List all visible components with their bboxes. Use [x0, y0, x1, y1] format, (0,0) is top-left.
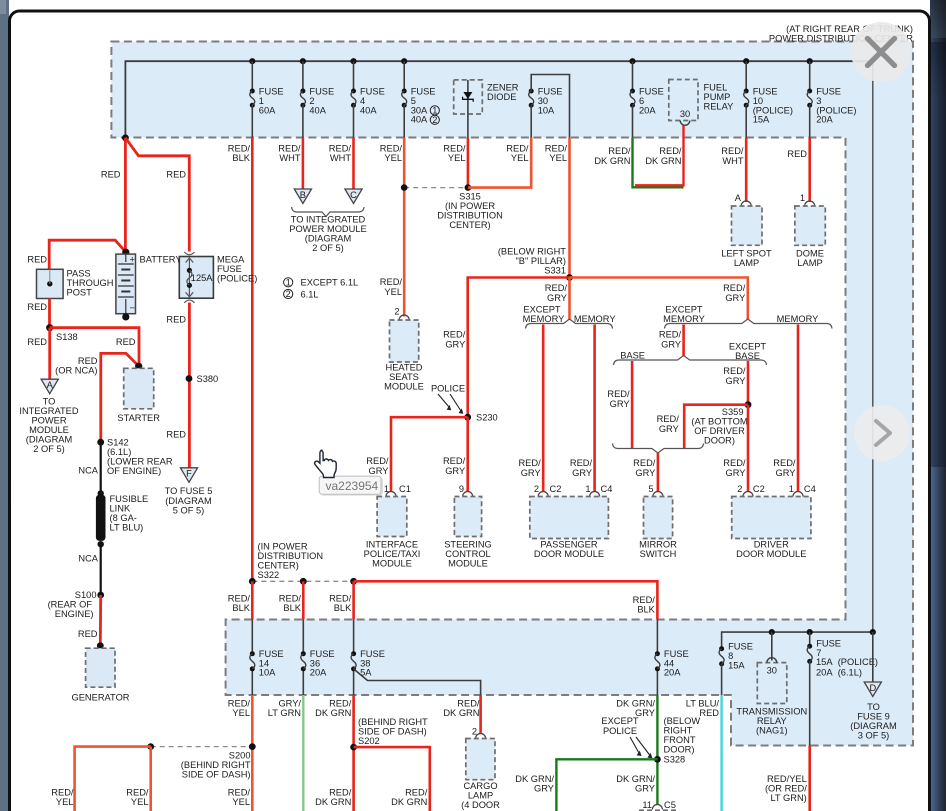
svg-text:RED/: RED/ [723, 458, 746, 468]
svg-text:POWER MODULE: POWER MODULE [289, 224, 366, 234]
pin 1 C4 passenger door module [585, 484, 612, 497]
wire NCA fusible link to S100 [100, 544, 102, 595]
wire RED/BLK S322 drop to fuse14 [251, 581, 254, 619]
label NCA [78, 554, 98, 564]
svg-text:MODULE: MODULE [29, 425, 69, 435]
svg-text:RED/: RED/ [126, 788, 149, 798]
svg-text:RED/: RED/ [51, 788, 74, 798]
svg-text:15A (POLICE): 15A (POLICE) [816, 657, 878, 667]
svg-text:RED: RED [78, 356, 98, 366]
label RED/YEL [545, 144, 568, 164]
svg-text:C1: C1 [399, 484, 411, 494]
svg-text:10A: 10A [538, 105, 555, 115]
svg-text:RED/: RED/ [721, 146, 744, 156]
svg-text:RED/: RED/ [608, 146, 631, 156]
svg-text:POST: POST [67, 288, 93, 298]
dome lamp module [795, 206, 826, 268]
svg-text:RED: RED [101, 170, 121, 180]
label TO INTEGRATED POWER MODULE (DIAGRAM 2 OF 5) [289, 215, 366, 254]
svg-text:YEL: YEL [448, 153, 466, 163]
svg-text:SWITCH: SWITCH [640, 549, 677, 559]
svg-text:STEERING: STEERING [444, 540, 492, 550]
splice S138 [46, 324, 78, 342]
wire RED mega fuse to S380 to connector F [188, 303, 191, 468]
label BATTERY [140, 255, 182, 265]
svg-text:S202: S202 [358, 736, 380, 746]
wire RED/BLK S322 drop to fuse38 [352, 581, 355, 619]
label RED [101, 170, 121, 180]
svg-text:RIGHT: RIGHT [664, 726, 693, 736]
pin 2 cargo lamp [472, 727, 486, 739]
svg-text:BLK: BLK [232, 153, 250, 163]
svg-text:RED/: RED/ [380, 144, 403, 154]
pin 9 steering control module [459, 484, 473, 497]
svg-text:RED: RED [27, 337, 47, 347]
svg-text:(BEHIND RIGHT: (BEHIND RIGHT [358, 717, 428, 727]
label RED [166, 430, 186, 440]
brace except-memory / memory (right) [665, 319, 833, 329]
wire RED/GRY S331 right to memory brace [570, 278, 748, 321]
svg-text:RED/: RED/ [457, 699, 480, 709]
splice S322 dashed link [249, 578, 357, 585]
svg-text:MODULE: MODULE [372, 559, 412, 569]
label RED/YEL [228, 788, 251, 808]
wire fuse7 feed [809, 632, 811, 646]
svg-text:5: 5 [648, 484, 653, 494]
svg-text:B: B [300, 190, 306, 200]
label RED/YEL [51, 788, 74, 808]
svg-text:(NAG1): (NAG1) [756, 726, 788, 736]
wire RED/YEL fuse7 output below box [808, 746, 811, 811]
label RED/YEL [506, 144, 529, 164]
svg-text:MIRROR: MIRROR [639, 540, 677, 550]
fuse F14 10A [250, 649, 284, 678]
svg-text:RED/: RED/ [443, 456, 466, 466]
svg-text:YEL: YEL [384, 287, 402, 297]
svg-text:MEMORY: MEMORY [523, 314, 565, 324]
passenger door module [530, 497, 609, 560]
label DK GRN/ GRY [616, 699, 655, 719]
connector triangle F [180, 468, 197, 483]
svg-text:RED: RED [27, 254, 47, 264]
svg-text:GRY: GRY [635, 784, 655, 794]
svg-text:LAMP: LAMP [468, 791, 493, 801]
svg-text:OF DRIVER: OF DRIVER [694, 426, 745, 436]
svg-text:2: 2 [432, 115, 437, 125]
svg-text:(AT BOTTOM: (AT BOTTOM [691, 417, 747, 427]
label RED/GRY [518, 458, 541, 478]
wire fuse38 jog to cargo lamp [354, 669, 481, 695]
svg-text:EXCEPT: EXCEPT [523, 305, 561, 315]
svg-text:RELAY: RELAY [704, 102, 734, 112]
svg-text:C: C [350, 190, 357, 200]
svg-text:125A: 125A [191, 273, 214, 283]
fuse F5 30A/40A [401, 58, 435, 137]
svg-text:DOOR MODULE: DOOR MODULE [736, 549, 806, 559]
svg-text:DRIVER: DRIVER [754, 540, 789, 550]
label S100 (REAR OF ENGINE) [48, 590, 97, 619]
wire fuse30 top jog to RED/YEL drop [531, 75, 569, 138]
pass through post [37, 269, 64, 298]
svg-text:1: 1 [800, 193, 805, 203]
svg-text:GRY: GRY [661, 340, 681, 350]
svg-text:SIDE OF DASH): SIDE OF DASH) [182, 770, 251, 780]
label RED/BLK [633, 595, 656, 615]
svg-text:GRY: GRY [521, 468, 541, 478]
svg-text:(BELOW RIGHT: (BELOW RIGHT [498, 247, 566, 257]
wire RED battery to pass-through post [49, 240, 126, 269]
wire RED S138 to connector A [48, 328, 51, 380]
fusible link (8 GA- LT BLU) [96, 490, 106, 547]
svg-text:(POLICE): (POLICE) [217, 274, 257, 284]
splice S359 [745, 401, 752, 408]
svg-text:RED/: RED/ [506, 144, 529, 154]
label S315 (IN POWER DISTRIBUTION CENTER) [437, 192, 503, 231]
svg-text:C2: C2 [753, 484, 765, 494]
fuse F6 20A [629, 58, 663, 137]
svg-text:DISTRIBUTION: DISTRIBUTION [258, 551, 324, 561]
wire RED/GRY right brace to base brace [682, 325, 685, 357]
svg-text:(DIAGRAM: (DIAGRAM [305, 234, 352, 244]
label MEGA FUSE (POLICE) [217, 255, 257, 284]
svg-text:RED/: RED/ [570, 458, 593, 468]
label RED/BLK [279, 594, 302, 614]
svg-text:GRY: GRY [445, 340, 465, 350]
wire RED/GRY memory drop to driver door module pin1 [797, 325, 800, 492]
wire rail fuse8/relay/fuse7 from bus drop [722, 629, 876, 649]
svg-text:C5: C5 [664, 800, 676, 810]
label RED/GRY [723, 366, 746, 386]
fuse F30 10A [529, 87, 563, 138]
svg-text:POLICE: POLICE [603, 726, 637, 736]
label TO FUSE 5 (DIAGRAM 5 OF 5) [165, 486, 213, 516]
svg-text:GRY: GRY [726, 376, 746, 386]
brace except-memory / memory (left) [526, 319, 613, 329]
cargo lamp module [461, 739, 500, 811]
svg-text:C2: C2 [550, 484, 562, 494]
svg-text:RED/: RED/ [633, 595, 656, 605]
label RED/WHT [278, 144, 301, 164]
svg-text:C4: C4 [601, 484, 613, 494]
close button (X) overlay [851, 22, 911, 82]
svg-text:LAMP: LAMP [797, 258, 822, 268]
svg-text:FRONT: FRONT [664, 735, 696, 745]
svg-text:RED/: RED/ [633, 458, 656, 468]
wire RED/GRY S331 left to S230 branch [468, 278, 570, 418]
svg-text:LT GRN: LT GRN [268, 708, 301, 718]
svg-text:15A: 15A [728, 661, 745, 671]
svg-text:20A: 20A [816, 115, 833, 125]
svg-text:DK GRN/: DK GRN/ [515, 774, 554, 784]
fuse F8 15A [719, 642, 753, 671]
svg-text:(6.1L): (6.1L) [107, 447, 131, 457]
svg-text:40A: 40A [360, 105, 377, 115]
svg-text:DK GRN: DK GRN [645, 156, 681, 166]
connector C5 box edge (cut at page bottom) [639, 809, 676, 811]
svg-text:RED/: RED/ [443, 144, 466, 154]
connector triangle B [294, 189, 311, 204]
svg-text:THROUGH: THROUGH [67, 278, 114, 288]
wire RED/BLK S322 drop to fuse36 [302, 581, 305, 619]
wire RED/DK GRN S202 branch off-page [354, 747, 430, 811]
label RED/YEL [126, 788, 149, 808]
svg-text:S100: S100 [75, 590, 97, 600]
label (BELOW RIGHT "B" PILLAR) S331 [498, 247, 566, 276]
wire feed fuse36 inside box [302, 620, 304, 696]
svg-text:S322: S322 [258, 570, 280, 580]
svg-text:RED/: RED/ [723, 366, 746, 376]
svg-text:RED: RED [787, 149, 807, 159]
svg-text:DK GRN/: DK GRN/ [616, 699, 655, 709]
svg-text:YEL: YEL [56, 797, 74, 807]
svg-text:1: 1 [789, 484, 794, 494]
svg-text:BATTERY: BATTERY [140, 255, 182, 265]
fuse F4 40A [350, 58, 384, 137]
svg-text:TO FUSE 5: TO FUSE 5 [165, 486, 213, 496]
label RED/GRY [443, 330, 466, 350]
tooltip va223954 [319, 476, 383, 496]
generator [71, 642, 129, 702]
svg-text:RED/: RED/ [773, 458, 796, 468]
svg-text:NCA: NCA [78, 466, 98, 476]
svg-text:40A: 40A [411, 115, 428, 125]
wire LT BLU/RED fuse8 output off-page [721, 664, 723, 811]
svg-text:GRY: GRY [369, 466, 389, 476]
zener diode D1 [454, 80, 519, 138]
splice S142 [97, 439, 104, 446]
svg-text:RED/: RED/ [545, 283, 568, 293]
svg-text:DK GRN: DK GRN [594, 156, 630, 166]
svg-text:YEL: YEL [549, 153, 567, 163]
label EXCEPT MEMORY [523, 305, 565, 325]
wire RED/WHT fuse10 to left spot lamp [745, 138, 748, 203]
svg-text:+: + [130, 255, 135, 265]
svg-text:(DIAGRAM: (DIAGRAM [26, 435, 73, 445]
svg-text:RED: RED [116, 337, 136, 347]
label S359 (AT BOTTOM OF DRIVER DOOR) [691, 407, 747, 446]
bus wire B+ (top feed rail) [125, 61, 872, 632]
wire RED/GRY S331 down to left memory brace [568, 278, 571, 321]
svg-text:8: 8 [728, 651, 733, 661]
label RED/YEL [228, 699, 251, 719]
svg-text:(IN POWER: (IN POWER [258, 542, 308, 552]
svg-text:S200: S200 [229, 751, 251, 761]
svg-text:WHT: WHT [330, 153, 351, 163]
svg-text:S328: S328 [664, 755, 686, 765]
svg-text:TO: TO [43, 397, 56, 407]
label RED [166, 315, 186, 325]
label RED/WHT [721, 146, 744, 166]
svg-text:LT BLU): LT BLU) [110, 523, 144, 533]
svg-text:DK GRN: DK GRN [443, 708, 479, 718]
wire RED/YEL zener to splice S315 [467, 138, 470, 188]
svg-text:GRY: GRY [635, 468, 655, 478]
brace base / except-base [614, 356, 767, 366]
svg-text:GRY: GRY [572, 468, 592, 478]
label RED/YEL [380, 277, 403, 297]
wire RED S138 to starter [50, 328, 139, 367]
fuse F2 40A [300, 58, 334, 137]
label FUSIBLE LINK (8 GA- LT BLU) [110, 494, 149, 533]
label RED/GRY [633, 458, 656, 478]
svg-text:40A: 40A [309, 105, 326, 115]
svg-text:WHT: WHT [722, 156, 743, 166]
label RED/GRY [545, 283, 568, 303]
wire RED/YEL S315 up to fuse30 bottom [468, 138, 531, 188]
label RED [166, 170, 186, 180]
label RED [27, 337, 47, 347]
wire feed fuse38 inside box [353, 620, 355, 696]
label S200 (BEHIND RIGHT SIDE OF DASH) [181, 751, 251, 780]
wire GRY/LT GRN fuse36 output off-page [302, 695, 304, 811]
mouse cursor (hand pointer) [315, 450, 337, 477]
wire to connector D [872, 632, 874, 682]
legend circled 2 on fuse F5 [430, 115, 439, 125]
label POLICE with arrows [431, 384, 465, 414]
svg-text:BLK: BLK [283, 603, 301, 613]
splice S315 dashed link [401, 184, 471, 191]
svg-text:9: 9 [459, 484, 464, 494]
svg-text:2: 2 [737, 484, 742, 494]
svg-text:CONTROL: CONTROL [445, 549, 490, 559]
pin 2 C2 driver door module [737, 484, 765, 497]
svg-text:(OR RED/: (OR RED/ [765, 784, 807, 794]
svg-text:30: 30 [767, 666, 777, 676]
label RED/DK GRN [594, 146, 631, 166]
svg-text:YEL: YEL [232, 797, 250, 807]
svg-text:FUSE 9: FUSE 9 [857, 712, 890, 722]
svg-text:CENTER): CENTER) [258, 561, 299, 571]
svg-text:RED/YEL: RED/YEL [767, 774, 807, 784]
legend circled 1 on fuse F5 [430, 105, 439, 115]
svg-text:RED/: RED/ [228, 144, 251, 154]
wire RED/GRY except-memory drop to passenger door module pin2 [542, 325, 545, 492]
wire RED/DK GRN fuse38 jog output to cargo lamp [479, 695, 482, 734]
svg-text:(LOWER REAR: (LOWER REAR [107, 457, 173, 467]
svg-text:GRY: GRY [659, 424, 679, 434]
svg-text:2 OF 5): 2 OF 5) [312, 243, 344, 253]
label DK GRN/ GRY [515, 774, 554, 794]
svg-text:MODULE: MODULE [448, 559, 488, 569]
wire RED/YEL fuse14 output to S200 and off-page [251, 695, 254, 811]
svg-text:FUSIBLE: FUSIBLE [110, 494, 149, 504]
svg-text:RED/: RED/ [228, 594, 251, 604]
svg-text:(BEHIND RIGHT: (BEHIND RIGHT [181, 760, 251, 770]
label RED [116, 337, 136, 347]
svg-text:11: 11 [642, 800, 652, 810]
svg-text:POLICE: POLICE [431, 384, 465, 394]
label BASE [620, 351, 645, 361]
label RED [27, 254, 47, 264]
svg-text:RED/: RED/ [366, 456, 389, 466]
svg-text:60A: 60A [259, 105, 276, 115]
svg-text:F: F [186, 469, 192, 479]
wire RED/GRY S359 down to driver door module pin2 [747, 405, 750, 491]
brace mirror switch feed [613, 444, 704, 454]
label RED [78, 629, 98, 639]
mega fuse (police) 125A [179, 252, 213, 303]
svg-text:2: 2 [394, 307, 399, 317]
heated seats module pin 2 [394, 307, 409, 321]
label RED/GRY [443, 456, 466, 476]
pin 2 C2 passenger door module [534, 484, 562, 497]
interface police/taxi module [364, 497, 421, 569]
wire RED/YEL S200 center branch off-page [149, 747, 152, 811]
svg-text:ZENER: ZENER [487, 83, 519, 93]
brace to integrated power module [292, 207, 364, 217]
next page button (chevron) overlay [854, 405, 910, 461]
svg-text:30: 30 [680, 109, 690, 119]
svg-text:BLK: BLK [232, 603, 250, 613]
label RED/GRY [723, 458, 746, 478]
svg-text:OF ENGINE): OF ENGINE) [107, 466, 161, 476]
svg-text:INTEGRATED: INTEGRATED [19, 406, 79, 416]
label RED/ DK GRN [443, 699, 480, 719]
svg-text:RED/: RED/ [607, 389, 630, 399]
svg-text:15A: 15A [753, 115, 770, 125]
svg-text:EXCEPT 6.1L: EXCEPT 6.1L [301, 278, 359, 288]
svg-text:2 OF 5): 2 OF 5) [33, 444, 65, 454]
pin 5 mirror switch [648, 484, 663, 497]
wire feed fuse44 inside box [656, 620, 658, 696]
label EXCEPT MEMORY [663, 305, 705, 325]
svg-text:CENTER): CENTER) [449, 220, 490, 230]
svg-text:RED/: RED/ [659, 330, 682, 340]
wire RED/WHT fuse2 to connector B [302, 138, 305, 190]
svg-text:BASE: BASE [620, 351, 645, 361]
label DK GRN/ GRY [616, 774, 655, 794]
fuse F36 20A [301, 649, 335, 678]
label S142 (6.1L) (LOWER REAR OF ENGINE) [107, 438, 173, 477]
svg-text:RED/: RED/ [659, 146, 682, 156]
svg-text:GENERATOR: GENERATOR [71, 693, 129, 703]
svg-text:"B" PILLAR): "B" PILLAR) [515, 256, 566, 266]
svg-text:MEMORY: MEMORY [574, 314, 616, 324]
label (IN POWER DISTRIBUTION CENTER) S322 [258, 542, 324, 581]
label RED/DK GRN [645, 146, 682, 166]
fuel pump relay K1 [669, 80, 734, 126]
svg-text:BLK: BLK [637, 605, 655, 615]
label RED/ DK GRN [391, 788, 428, 808]
wire RED/GRY base drop to mirror brace [631, 361, 634, 448]
label RED/BLK [228, 594, 251, 614]
starter [117, 363, 160, 423]
fuse F44 20A [655, 649, 689, 678]
fuse F10 15A (police) [743, 58, 793, 137]
svg-text:DOME: DOME [796, 249, 824, 259]
pin 11 C5 connector [642, 800, 676, 810]
PDC header label [769, 24, 913, 44]
svg-text:DK GRN/: DK GRN/ [616, 774, 655, 784]
svg-text:RED/: RED/ [329, 788, 352, 798]
svg-text:C4: C4 [804, 484, 816, 494]
svg-text:RED/: RED/ [443, 330, 466, 340]
wire feed into fuse14 inside box [251, 620, 253, 696]
svg-text:RED/: RED/ [329, 699, 352, 709]
svg-text:A: A [735, 193, 742, 203]
svg-text:RED: RED [166, 430, 186, 440]
svg-text:RED/: RED/ [380, 277, 403, 287]
heated seats module [384, 320, 424, 392]
svg-text:LEFT SPOT: LEFT SPOT [721, 249, 772, 259]
svg-text:DK GRN: DK GRN [315, 708, 351, 718]
label RED/WHT [329, 144, 352, 164]
svg-text:GRY: GRY [726, 468, 746, 478]
splice S328 [654, 755, 685, 765]
label MEMORY [574, 314, 616, 324]
wire RED/GRY memory drop to passenger door module pin1 [593, 325, 596, 492]
svg-text:S331: S331 [544, 266, 566, 276]
